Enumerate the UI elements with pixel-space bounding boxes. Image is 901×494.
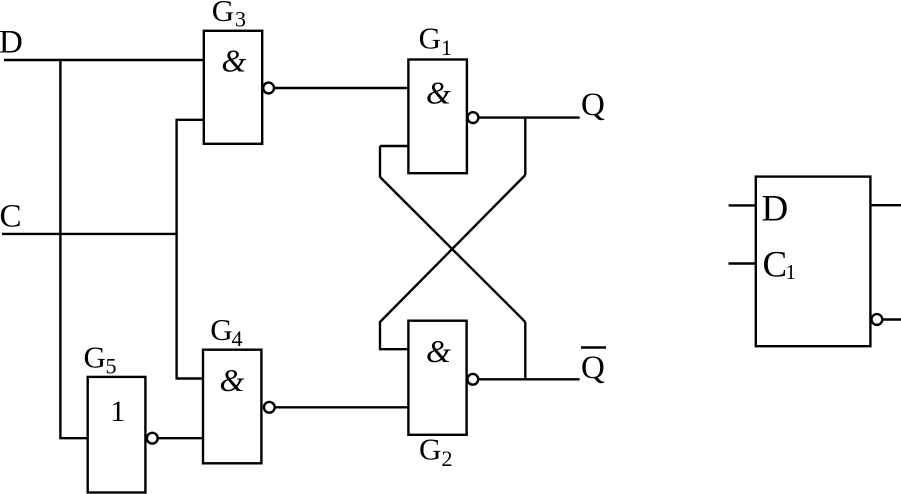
svg-text:1: 1 [110,395,125,428]
gate G3 inversion bubble [263,83,274,94]
wire G5 input [59,437,87,439]
wire block D input stub [729,204,756,206]
wire diagonal Qbar to G1 [380,177,525,322]
wire G1 feedback vertical [379,146,381,177]
wire C branch vertical [175,120,177,379]
svg-text:C: C [763,244,788,285]
svg-text:Q: Q [581,350,605,386]
wire block Q output [870,204,901,206]
wire block Qbar output [882,318,901,320]
wire G3 output to G1 [274,87,408,89]
wire D input line [4,59,204,61]
svg-text:C: C [0,199,22,235]
svg-text:&: & [220,362,245,398]
gate G3 box [204,31,262,144]
wire diagonal Q to G2 [380,175,525,322]
gate G1 box [408,60,467,174]
svg-text:G: G [212,0,234,28]
block inversion bubble [872,314,883,325]
wire G2 upper input horizontal [379,348,409,350]
svg-text:5: 5 [106,354,117,379]
svg-text:G: G [419,432,441,467]
svg-text:Q: Q [581,87,605,123]
gate G5 inversion bubble [147,433,158,444]
wire G3 lower input [176,119,204,121]
gate G2 inversion bubble [467,374,478,385]
wire G1 lower input horizontal [380,145,408,147]
svg-text:&: & [426,333,451,369]
wire G5 output to G4 [158,437,203,439]
svg-text:G: G [419,21,441,56]
D flip-flop block [756,177,871,347]
wire G2 upper input vertical [379,321,381,349]
overbar of Qbar [581,346,606,349]
svg-text:G: G [84,340,106,375]
gate G5 box [88,377,146,493]
svg-text:D: D [0,25,23,61]
wire G2 output to Qbar [478,378,579,380]
wire G4 upper input [176,377,204,379]
svg-text:3: 3 [235,7,246,32]
gate G4 box [203,350,261,464]
gate G1 inversion bubble [468,112,479,123]
wire Q feedback vertical [524,118,526,175]
svg-text:&: & [221,43,246,79]
svg-text:4: 4 [232,326,243,351]
svg-text:1: 1 [441,35,452,60]
gate G2 box [408,321,466,435]
svg-text:2: 2 [442,446,453,471]
wire block C1 input stub [729,262,756,264]
svg-text:G: G [210,312,232,347]
wire C input line [2,233,178,235]
gate G4 inversion bubble [264,402,275,413]
wire Qbar feedback vertical [524,322,526,379]
wire G4 output to G2 [275,406,409,408]
svg-text:1: 1 [786,260,797,284]
wire D branch vertical [59,59,61,438]
svg-text:D: D [762,188,789,229]
svg-text:&: & [426,75,451,111]
wire G1 output to Q [478,116,579,118]
